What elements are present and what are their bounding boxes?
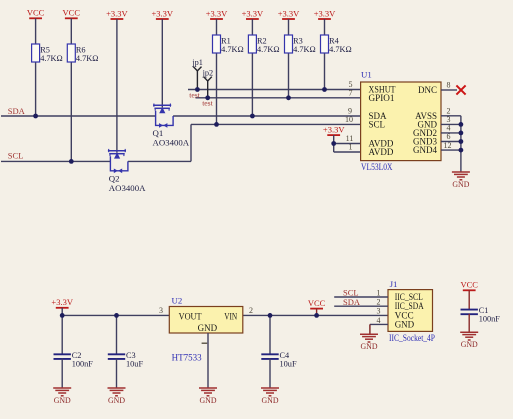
power flag +3.3V (AVDD) [323,125,345,136]
test point jp1 [191,58,203,89]
wire test1 to pin 5 XSHUT [188,89,361,91]
svg-text:1: 1 [349,143,353,152]
regulator U2 HT7533 body [169,307,243,334]
ground (C4) [261,388,279,405]
wire VCC to R5 [35,18,37,44]
wire C4 lower [269,359,271,388]
wire VCC drop [316,309,318,316]
capacitor C2 [54,351,94,368]
svg-text:+3.3V: +3.3V [51,297,73,307]
svg-text:+3.3V: +3.3V [206,8,228,18]
junction R4-XSHUT [322,87,327,92]
junction C4 [268,313,273,318]
svg-text:test: test [189,90,200,99]
wire pin 3 GND [441,123,461,125]
resistor R2 [248,35,279,54]
svg-text:4.7KΩ: 4.7KΩ [40,54,63,63]
wire pin 4 GND2 [441,132,461,134]
wire +3.3V to R2 [251,19,253,35]
svg-text:4.7KΩ: 4.7KΩ [293,45,316,54]
wire rail left [62,314,169,316]
connector J1 IIC_Socket_4P body [388,290,433,332]
svg-text:VCC: VCC [27,8,45,18]
ground (C1) [460,332,478,349]
svg-text:GPIO1: GPIO1 [369,93,395,103]
wire C2 upper [61,315,63,354]
svg-text:jp1: jp1 [191,58,203,67]
wire SDA to J1 pin 2 [334,305,388,307]
svg-text:4.7KΩ: 4.7KΩ [257,45,280,54]
wire VCC to R6 [70,18,72,44]
svg-text:VCC: VCC [460,280,478,290]
power flag +3.3V (R3) [278,8,300,19]
transistor Q2 AO3400A [108,149,128,173]
wire +3.3V to Q1 gate [161,19,163,107]
resistor R5 [32,44,63,63]
power flag +3.3V (Q1 gate) [152,8,174,19]
svg-text:+3.3V: +3.3V [278,8,300,18]
wire +3.3V to Q2 gate [116,19,118,153]
junction jp2-GPIO1 [205,95,210,100]
IC U1 VL53L0X body [361,82,441,161]
svg-text:SDA: SDA [343,297,361,307]
ground (C2) [53,388,71,405]
svg-text:AO3400A: AO3400A [153,138,190,148]
resistor R4 [321,35,352,54]
power flag +3.3V (R4) [314,8,336,19]
svg-text:VCC: VCC [63,8,81,18]
power flag +3.3V (bottom) [51,297,73,308]
junction GND bus pin4 [459,131,464,136]
junction GND bus pin3 [459,122,464,127]
svg-text:+3.3V: +3.3V [323,125,345,135]
svg-text:100nF: 100nF [72,359,94,368]
capacitor C3 [108,351,144,368]
wire pin 8 DNC [441,89,457,91]
svg-text:VOUT: VOUT [179,311,202,321]
svg-text:J1: J1 [390,279,398,289]
wire rail right [243,314,388,316]
svg-text:GND: GND [461,339,478,349]
svg-text:100nF: 100nF [479,315,501,324]
wire SCL mid segment [128,160,191,162]
svg-text:1: 1 [377,288,381,297]
svg-text:jp2: jp2 [202,68,214,77]
svg-text:2: 2 [249,306,253,315]
svg-text:HT7533: HT7533 [172,353,202,363]
wire pin 2 AVSS [441,115,461,117]
wire U2 GND pin [207,333,209,388]
wire C3 upper [116,315,118,354]
power flag VCC (C1) [460,280,478,291]
svg-text:GND: GND [262,395,279,405]
svg-text:SCL: SCL [8,151,24,161]
wire SCL left segment [1,160,110,162]
svg-text:GND: GND [54,395,71,405]
wire SDA right segment to pin 9 [173,115,361,117]
pin number 1 (U2, rotated dash) [202,342,208,344]
svg-text:+3.3V: +3.3V [152,8,174,18]
resistor R1 [213,35,244,54]
junction jp1-XSHUT [195,87,200,92]
svg-text:IIC_Socket_4P: IIC_Socket_4P [389,333,435,343]
wire +3.3V to R1 [216,19,218,35]
wire GND bus [460,116,462,172]
ground (U2) [199,388,217,405]
wire to pin 11 AVDD [334,143,361,145]
resistor R3 [285,35,316,54]
svg-text:AO3400A: AO3400A [109,183,146,193]
svg-text:+3.3V: +3.3V [106,8,128,18]
svg-text:4.7KΩ: 4.7KΩ [221,45,244,54]
junction R5-SDA [33,114,38,119]
capacitor C1 [461,306,501,323]
junction C3 [114,313,119,318]
ground (U1) [452,172,470,189]
svg-text:VCC: VCC [308,298,326,308]
wire pin 12 GND4 [441,149,461,151]
ground (J1) [360,334,378,351]
capacitor C4 [261,351,297,368]
junction VCC-rail [314,313,319,318]
wire +3.3V to R4 [324,19,326,35]
junction GND bus pin6 [459,139,464,144]
wire VCC to C1 [468,290,470,310]
svg-text:4.7KΩ: 4.7KΩ [76,54,99,63]
wire R3 to GPIO1 net [288,53,290,98]
junction R2-SDA [250,114,255,119]
junction AVDD [331,141,336,146]
svg-text:U1: U1 [361,70,372,80]
svg-text:2: 2 [377,298,381,307]
svg-text:SDA: SDA [8,106,26,116]
test point jp2 [202,68,214,98]
wire SCL to pin 10 [191,123,361,125]
svg-text:10uF: 10uF [126,359,143,368]
svg-text:+3.3V: +3.3V [314,8,336,18]
wire R2 to SDA [251,53,253,116]
svg-text:7: 7 [349,89,353,98]
junction +3.3V/C2 [60,313,65,318]
wire J1 GND drop [369,324,371,333]
junction R1-SCL [214,122,219,127]
svg-text:8: 8 [447,81,451,90]
wire R1 to SCL segment [216,53,218,124]
svg-text:GND4: GND4 [413,145,437,155]
wire SCL riser [190,124,192,161]
wire pin 6 GND3 [441,141,461,143]
svg-text:GND: GND [361,341,378,351]
wire test2 to pin 7 GPIO1 [196,97,361,99]
wire C3 lower [116,359,118,388]
svg-text:+3.3V: +3.3V [242,8,264,18]
svg-text:DNC: DNC [418,85,437,95]
wire R4 to XSHUT net [324,53,326,90]
svg-text:GND: GND [200,395,217,405]
power flag VCC (rail) [308,298,326,309]
svg-text:10: 10 [345,115,353,124]
svg-text:GND: GND [198,323,218,333]
power flag +3.3V (R2) [242,8,264,19]
svg-text:GND: GND [108,395,125,405]
power flag +3.3V (R1) [206,8,228,19]
svg-text:GND: GND [452,179,469,189]
svg-text:VIN: VIN [224,311,237,321]
wire SDA left segment [1,115,156,117]
power flag VCC (R6) [63,8,81,19]
wire R5 to SDA [35,62,37,116]
wire +3.3V drop to rail [61,308,63,316]
wire C4 upper [269,315,271,354]
svg-text:3: 3 [159,306,163,315]
resistor R6 [67,44,98,63]
transistor Q1 AO3400A [153,104,173,128]
svg-text:AVDD: AVDD [369,147,394,157]
wire +3.3V AVDD drop [333,135,335,152]
power flag +3.3V (Q2 gate) [106,8,128,19]
wire R6 to SCL [70,62,72,161]
wire C2 lower [61,359,63,388]
svg-text:SCL: SCL [369,120,386,130]
svg-text:4: 4 [377,316,381,325]
wire to pin 1 AVDD [334,151,361,153]
svg-text:4.7KΩ: 4.7KΩ [329,45,352,54]
svg-text:VL53L0X: VL53L0X [361,162,393,172]
svg-text:U2: U2 [172,295,183,305]
wire SCL to J1 pin 1 [334,296,388,298]
junction GND bus pin12 [459,148,464,153]
svg-text:3: 3 [377,307,381,316]
ground (C3) [108,388,126,405]
junction R6-SCL [69,159,74,164]
svg-text:GND: GND [395,319,415,329]
svg-text:10uF: 10uF [280,359,297,368]
wire +3.3V to R3 [288,19,290,35]
no-connect X on DNC [456,85,465,94]
power flag VCC (R5) [27,8,45,19]
wire C1 lower [468,314,470,332]
wire J1 pin 4 GND [370,323,388,325]
junction R3-GPIO1 [286,95,291,100]
